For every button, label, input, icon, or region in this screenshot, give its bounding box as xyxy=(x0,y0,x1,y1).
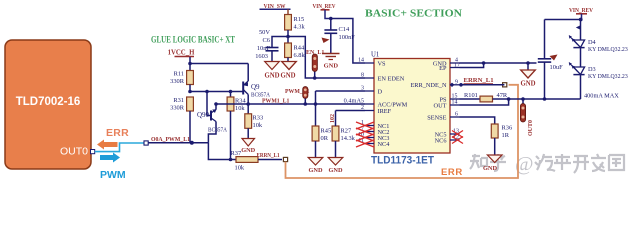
ground under R36 xyxy=(487,155,502,163)
svg-text:KY DMLQ32.23: KY DMLQ32.23 xyxy=(588,74,628,80)
svg-text:ERRN_L1: ERRN_L1 xyxy=(464,77,494,84)
svg-text:GND: GND xyxy=(520,81,535,88)
pin names right xyxy=(410,60,447,144)
resistor R15 4.3k xyxy=(285,15,292,31)
pin stubs left xyxy=(365,63,374,144)
transistor Q90 BC857A xyxy=(206,92,208,116)
svg-text:R27: R27 xyxy=(341,128,352,135)
node junction xyxy=(188,62,192,66)
svg-text:Q90: Q90 xyxy=(197,111,210,119)
node divider junction xyxy=(286,35,290,39)
svg-text:100nF: 100nF xyxy=(339,34,356,41)
wire O0A_PWM_L1 xyxy=(148,142,208,144)
svg-text:14: 14 xyxy=(358,58,364,64)
wire D4-D3 xyxy=(580,48,582,67)
svg-text:D3: D3 xyxy=(588,66,596,73)
svg-text:4.3k: 4.3k xyxy=(294,24,306,31)
svg-text:IREF: IREF xyxy=(378,108,392,115)
Q90 emitter wire xyxy=(208,122,216,143)
wire R34 down to R37 xyxy=(208,143,236,160)
svg-text:R36: R36 xyxy=(502,125,513,132)
svg-text:OUT0: OUT0 xyxy=(528,120,534,136)
ground under R27 xyxy=(328,158,343,166)
svg-text:GND: GND xyxy=(264,73,279,80)
jumper OUT0 test point xyxy=(522,99,524,104)
svg-text:50V: 50V xyxy=(259,29,270,36)
svg-text:BC857A: BC857A xyxy=(208,128,228,134)
svg-text:R33: R33 xyxy=(253,115,264,122)
wire D net xyxy=(316,90,366,92)
svg-text:OUT: OUT xyxy=(434,102,447,109)
svg-text:5: 5 xyxy=(361,99,364,105)
diode D4 LED xyxy=(573,40,584,47)
svg-text:NC4: NC4 xyxy=(378,141,391,148)
svg-text:9: 9 xyxy=(455,79,458,85)
pin names left xyxy=(378,60,408,148)
wire base row xyxy=(188,90,192,94)
svg-text:10k: 10k xyxy=(235,105,245,112)
char hu xyxy=(490,154,506,171)
ground earth C14 xyxy=(322,53,340,55)
svg-text:330R: 330R xyxy=(170,78,185,85)
svg-text:1R: 1R xyxy=(502,132,510,139)
node ERR right xyxy=(503,83,507,87)
svg-text:VIN_REV: VIN_REV xyxy=(569,7,593,14)
arrow marker on wire xyxy=(576,25,581,29)
svg-text:2: 2 xyxy=(361,105,364,111)
resistor R27 14.3k xyxy=(332,126,339,141)
wire OUT net xyxy=(493,98,581,100)
ground under R45 xyxy=(308,158,323,166)
svg-text:GND: GND xyxy=(280,73,295,80)
wire R34 down to R37 row xyxy=(230,111,232,160)
svg-text:EP: EP xyxy=(439,65,447,72)
wire PWM1_L1 xyxy=(216,103,365,105)
resistor R11 330R xyxy=(189,64,191,71)
capacitor C14 100nF xyxy=(330,19,332,31)
svg-text:C14: C14 xyxy=(339,26,350,33)
negation diamond ERR_NDE_N xyxy=(450,83,455,87)
svg-text:TLD7002-16: TLD7002-16 xyxy=(16,96,81,108)
resistor R37 10k xyxy=(236,157,258,163)
svg-text:ERRN_L1: ERRN_L1 xyxy=(257,152,280,159)
wire OUT pin bend xyxy=(460,99,509,105)
svg-text:BASIC+ SECTION: BASIC+ SECTION xyxy=(365,8,462,20)
svg-text:KY DMLQ32.23: KY DMLQ32.23 xyxy=(588,47,628,53)
wire EP pin17 xyxy=(460,63,484,68)
svg-text:R11: R11 xyxy=(174,71,184,78)
svg-text:VIN_REV: VIN_REV xyxy=(313,3,336,10)
Q9 collector wire down xyxy=(247,95,249,105)
svg-text:D4: D4 xyxy=(588,39,597,46)
op IC U1 TLD1173-1ET body xyxy=(374,59,450,154)
svg-text:10k: 10k xyxy=(235,165,245,172)
resistor R44 6.8k xyxy=(287,37,289,44)
svg-text:ERR_NDE_N: ERR_NDE_N xyxy=(410,82,446,89)
svg-text:TLD1173-1ET: TLD1173-1ET xyxy=(371,155,434,167)
wire ERR orange path xyxy=(286,85,519,178)
svg-text:U1: U1 xyxy=(371,52,379,59)
svg-text:400mA MAX: 400mA MAX xyxy=(584,93,619,100)
resistor R33 10k xyxy=(247,104,249,114)
wire anode D4 xyxy=(580,20,582,41)
svg-text:14: 14 xyxy=(452,100,458,106)
ERR arrow xyxy=(97,140,118,150)
ground under R44 xyxy=(282,62,297,70)
svg-text:330R: 330R xyxy=(170,105,185,112)
svg-text:6: 6 xyxy=(455,112,458,118)
PWM arrow xyxy=(100,153,120,163)
ground on GND net xyxy=(526,61,530,65)
Q90 collector wire xyxy=(215,104,217,110)
pin stubs right xyxy=(450,63,460,140)
svg-text:VS: VS xyxy=(378,60,387,67)
char quan xyxy=(609,155,624,170)
svg-text:GND: GND xyxy=(309,167,323,174)
svg-text:PWM: PWM xyxy=(100,169,126,181)
transistor Q9 BC857A xyxy=(242,82,244,95)
svg-text:10k: 10k xyxy=(253,122,263,129)
node ERRN_L1 xyxy=(283,157,287,161)
ground under C6 xyxy=(265,62,280,70)
svg-text:GLUE LOGIC BASIC+ XT: GLUE LOGIC BASIC+ XT xyxy=(151,35,235,45)
svg-text:0R: 0R xyxy=(321,135,329,142)
svg-text:Q9: Q9 xyxy=(251,83,260,91)
no-connect X marks left xyxy=(356,122,374,147)
wire ERRN_L1 xyxy=(460,84,505,86)
svg-text:R37: R37 xyxy=(231,150,242,157)
svg-text:10uF: 10uF xyxy=(550,64,564,71)
wire vcc horizontal xyxy=(190,63,248,65)
svg-text:R45: R45 xyxy=(321,128,332,135)
wire to C6 xyxy=(272,37,288,48)
svg-text:C6: C6 xyxy=(263,37,270,44)
wire cyan from OUT0 xyxy=(95,143,144,152)
svg-text:ERR: ERR xyxy=(106,127,129,139)
wire GND pin4 xyxy=(460,62,537,64)
polarity mark C14 xyxy=(322,38,330,44)
wire EN net xyxy=(288,37,365,79)
svg-text:R31: R31 xyxy=(173,97,184,104)
svg-text:NC6: NC6 xyxy=(435,137,447,144)
wire top rail xyxy=(545,19,582,21)
svg-text:GND: GND xyxy=(241,147,255,154)
svg-text:47R: 47R xyxy=(497,92,508,99)
wire IREF xyxy=(336,110,366,112)
svg-text:ERR: ERR xyxy=(441,167,463,178)
char kai xyxy=(573,156,589,173)
resistor R45 0R xyxy=(312,126,319,141)
svg-text:3: 3 xyxy=(361,86,364,92)
svg-text:GND: GND xyxy=(324,63,339,70)
resistor R36 1R xyxy=(491,124,498,138)
char zhi xyxy=(470,154,487,169)
svg-text:EN EDEN: EN EDEN xyxy=(378,75,405,82)
pin numbers left xyxy=(358,58,364,145)
svg-text:R15: R15 xyxy=(294,16,305,23)
svg-text:O0A_PWM_L1: O0A_PWM_L1 xyxy=(151,137,190,143)
wire D3 cathode down xyxy=(580,75,582,99)
char qi xyxy=(535,154,555,171)
char fa xyxy=(591,154,606,171)
svg-text:8: 8 xyxy=(361,73,364,79)
resistor R101 47R xyxy=(460,98,481,100)
svg-text:14.3k: 14.3k xyxy=(341,135,356,142)
svg-text:102: 102 xyxy=(330,114,336,123)
svg-text:OUT0: OUT0 xyxy=(60,146,88,158)
svg-text:D: D xyxy=(378,88,383,95)
pin numbers right xyxy=(452,58,460,141)
svg-text:SENSE: SENSE xyxy=(427,114,446,121)
svg-text:0.4mA: 0.4mA xyxy=(344,98,362,105)
capacitor C6 10nF xyxy=(266,47,279,49)
resistor R31 330R xyxy=(187,97,194,111)
wire VS feed xyxy=(331,19,365,64)
char che xyxy=(554,154,571,170)
svg-text:GND: GND xyxy=(329,167,343,174)
svg-text:17: 17 xyxy=(454,63,460,69)
svg-text:1603: 1603 xyxy=(255,53,268,60)
watermark 知乎 @汽车开发圈 xyxy=(470,153,624,175)
Q9 emitter wire up xyxy=(247,64,249,82)
resistor R34 10k xyxy=(230,92,232,98)
no-connect X marks right xyxy=(452,131,463,144)
svg-text:R101: R101 xyxy=(464,92,478,99)
diode D3 LED xyxy=(573,67,584,74)
svg-text:PWM1_L1: PWM1_L1 xyxy=(262,99,289,105)
svg-text:1VCC_H: 1VCC_H xyxy=(168,50,196,57)
svg-text:6.8k: 6.8k xyxy=(294,52,306,59)
polarity mark C7 xyxy=(550,55,558,61)
IC U2 TLD7002-16 block xyxy=(5,40,91,169)
capacitor C7 10uF xyxy=(544,20,546,59)
svg-text:10nF: 10nF xyxy=(257,45,271,52)
ground under R33 xyxy=(242,139,255,147)
svg-text:GND: GND xyxy=(483,165,497,172)
node O0A_PWM_L1 xyxy=(144,141,148,145)
jumper PWM test point xyxy=(303,87,308,99)
wire SENSE xyxy=(460,117,495,124)
svg-text:R44: R44 xyxy=(294,45,305,52)
